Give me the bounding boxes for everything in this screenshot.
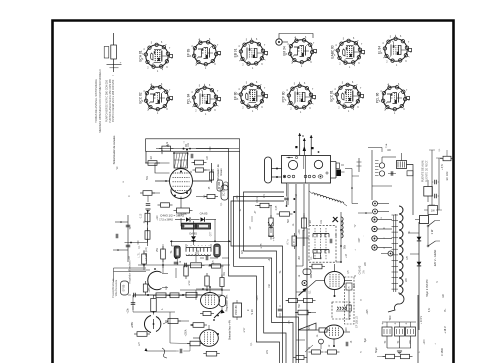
svg-text:2M2: 2M2 — [311, 273, 313, 278]
long vertical from tuner — [306, 228, 308, 363]
svg-text:EB 91: EB 91 — [234, 48, 238, 57]
power terminals — [372, 217, 377, 222]
lower-left bottom boxes — [190, 341, 200, 346]
wire y241 — [170, 240, 231, 242]
top-cap terminal — [276, 39, 282, 45]
svg-text:+150A: +150A — [185, 329, 188, 336]
svg-text:+225: +225 — [367, 309, 369, 315]
horizontal osc block — [162, 146, 171, 151]
between tubes parts — [203, 311, 211, 315]
svg-text:50µF 2 PM 470: 50µF 2 PM 470 — [426, 279, 429, 297]
tube socket EABC 80 — [331, 37, 365, 69]
svg-text:5µF: 5µF — [364, 337, 367, 342]
bottom mid boxes — [289, 298, 298, 302]
right pot dark — [214, 244, 220, 257]
left feed column — [127, 215, 129, 262]
svg-text:17,5 a 3MA5: 17,5 a 3MA5 — [159, 219, 173, 222]
coil column right — [340, 212, 342, 262]
svg-text:+ 18 V: + 18 V — [444, 326, 447, 334]
svg-text:+: + — [382, 322, 384, 326]
mid right boxes — [312, 264, 322, 269]
osc wires — [167, 144, 169, 147]
osc transformer hatched — [174, 153, 188, 168]
svg-text:MEDIDAS OBTENIDAS CON VOLTIMET: MEDIDAS OBTENIDAS CON VOLTIMETRO MODELO — [98, 69, 102, 132]
AT label boxes — [217, 180, 223, 191]
B+ rail — [417, 295, 419, 363]
svg-text:1M: 1M — [151, 156, 153, 159]
long wire y265 — [138, 264, 230, 266]
svg-text:L.T.L: L.T.L — [138, 252, 141, 258]
IF coils right — [379, 163, 384, 168]
svg-text:EABC 80: EABC 80 — [331, 45, 335, 58]
video preamp leads — [114, 267, 147, 269]
svg-text:EF 89: EF 89 — [187, 49, 191, 58]
antenna input — [265, 157, 272, 183]
svg-text:1 W: 1 W — [430, 229, 434, 234]
svg-text:M: M — [302, 135, 304, 138]
small box right — [407, 171, 413, 176]
tube socket EF 80 — [234, 81, 268, 113]
label box PCF — [233, 303, 242, 317]
small meter circle — [302, 280, 307, 285]
svg-text:Sintonizador de canales: Sintonizador de canales — [112, 135, 116, 164]
mid cluster resistors — [142, 254, 147, 264]
long top box — [146, 139, 240, 152]
svg-text:3 A: 3 A — [363, 270, 366, 274]
svg-text:0,15: 0,15 — [141, 213, 143, 218]
svg-text:+10v: +10v — [127, 308, 130, 314]
mid wires — [143, 250, 145, 254]
svg-text:220 V~ GRAD: 220 V~ GRAD — [433, 250, 437, 267]
right wires — [401, 153, 403, 161]
svg-text:a V9: a V9 — [189, 280, 191, 285]
svg-text:CA 3: CA 3 — [255, 197, 259, 203]
svg-text:+190: +190 — [157, 215, 159, 221]
EC92 label box — [221, 185, 228, 200]
EF80 label box — [121, 281, 129, 295]
fuse box — [420, 216, 429, 224]
VHF tuner box — [282, 156, 331, 184]
V-shape mark — [268, 222, 273, 226]
left feed 2M2 box — [151, 299, 157, 312]
dashed IF can — [309, 226, 336, 263]
svg-text:EF 183 1/2: EF 183 1/2 — [356, 315, 359, 327]
bottom right extra boxes — [386, 354, 395, 358]
osc left cap chain — [143, 191, 152, 196]
deflection yoke arcs — [144, 316, 151, 333]
width regulator arc tube — [148, 271, 162, 289]
svg-text:EF 80: EF 80 — [123, 284, 126, 291]
svg-text:PCF 80: PCF 80 — [282, 91, 286, 102]
osc bottom boxes — [161, 203, 170, 207]
svg-text:+: + — [405, 322, 407, 326]
V box 301 — [302, 218, 307, 228]
svg-text:OA 85: OA 85 — [189, 231, 197, 235]
shielded ribbon coil — [312, 193, 344, 204]
winding hook — [388, 294, 404, 312]
svg-text:50µF: 50µF — [375, 347, 378, 353]
tube EL84 bottom — [325, 325, 344, 339]
tube socket PCL 86 — [376, 83, 410, 115]
lower left band wires — [133, 294, 210, 296]
svg-text:+140: +140 — [237, 195, 239, 201]
svg-text:+: + — [394, 322, 396, 326]
tube socket PCF 80 — [282, 82, 316, 114]
mid right wires — [296, 237, 309, 239]
svg-text:1 B 1: 1 B 1 — [294, 239, 296, 245]
tuner inner pins — [283, 175, 286, 178]
border frame — [53, 21, 454, 363]
tuner top leads — [299, 133, 301, 155]
tuner bottom leads — [287, 184, 289, 205]
dashed out-transformer — [332, 302, 350, 319]
terminal circles — [373, 201, 378, 206]
svg-text:OA 85: OA 85 — [200, 212, 208, 216]
svg-text:+200: +200 — [346, 327, 348, 333]
speaker dashed box — [345, 277, 355, 324]
rectifier diodes — [418, 222, 420, 330]
filter caps — [382, 327, 392, 336]
mains switch — [427, 225, 429, 227]
svg-text:+130: +130 — [299, 229, 301, 235]
connector to IF wires — [345, 169, 358, 204]
lower tube lower-left — [200, 330, 219, 347]
bold X mark — [333, 217, 339, 222]
svg-text:1M: 1M — [310, 220, 312, 223]
tube EM84 mid — [325, 272, 345, 290]
svg-text:K: K — [348, 286, 350, 290]
svg-text:Preamplificador de: Preamplificador de — [112, 278, 115, 298]
svg-text:Sintonia fina + 4%: Sintonia fina + 4% — [229, 319, 232, 340]
box 1W right — [428, 206, 438, 215]
svg-text:lineas: lineas — [219, 168, 223, 176]
svg-text:C 1500: C 1500 — [441, 347, 444, 356]
svg-text:a T 263 (1/2): a T 263 (1/2) — [145, 247, 148, 261]
voltmeter probe symbol — [113, 33, 115, 45]
svg-text:Videofrecuencia: Videofrecuencia — [115, 279, 118, 296]
svg-text:CH1 A3: CH1 A3 — [359, 265, 362, 274]
upper tube lower-left — [201, 293, 220, 309]
mid cluster resistors extra — [205, 276, 209, 286]
tube socket ECH 81 — [139, 41, 173, 73]
svg-text:+245v: +245v — [132, 321, 134, 328]
bus wire staircase — [240, 151, 293, 363]
svg-text:FUENTE DE ALIM.: FUENTE DE ALIM. — [421, 160, 425, 182]
tube socket EB 91 — [234, 38, 268, 70]
svg-text:AT1: AT1 — [263, 193, 266, 198]
svg-text:7,5A: 7,5A — [385, 143, 388, 148]
svg-text:1W: 1W — [431, 209, 435, 213]
svg-text:V 13: V 13 — [251, 309, 254, 315]
svg-text:PUENTE DE RECT.: PUENTE DE RECT. — [425, 160, 428, 183]
svg-text:EM 34: EM 34 — [283, 46, 287, 55]
svg-text:+255: +255 — [257, 295, 259, 301]
dark boxes — [182, 223, 196, 229]
svg-text:TRC: TRC — [388, 315, 392, 320]
svg-text:TOMAS DE ANTENA. SINTONIZADA: TOMAS DE ANTENA. SINTONIZADA — [94, 79, 98, 123]
bottom mid small parts — [319, 339, 324, 344]
svg-text:OA 85: OA 85 — [179, 212, 187, 216]
svg-text:a T: a T — [138, 342, 141, 346]
svg-text:ECH 81: ECH 81 — [139, 50, 143, 61]
svg-text:A 7 u: A 7 u — [287, 239, 290, 245]
wire to V13 — [196, 288, 222, 290]
pot 50k right — [219, 296, 226, 307]
transformer winding — [399, 206, 403, 294]
yoke boxes — [168, 319, 178, 324]
svg-text:+ 4,5v: + 4,5v — [442, 163, 444, 170]
caps near osc — [190, 154, 192, 159]
svg-text:PUNTO CREMA VER E 268 CON 250: PUNTO CREMA VER E 268 CON 250 — [112, 79, 115, 122]
svg-text:GR: GR — [443, 294, 445, 298]
svg-text:TV: TV — [355, 224, 357, 227]
bus area components — [260, 203, 269, 207]
top right box — [443, 156, 451, 161]
svg-text:+255: +255 — [149, 287, 151, 293]
diode vert — [191, 236, 196, 240]
tube V1 line osc — [170, 169, 193, 194]
svg-text:+270: +270 — [424, 339, 426, 345]
svg-text:EM: EM — [354, 284, 356, 288]
svg-text:OTT: OTT — [211, 231, 213, 236]
svg-text:EL 84: EL 84 — [378, 46, 382, 54]
svg-text:Regulador vert.: Regulador vert. — [226, 294, 229, 311]
svg-text:PCL 84: PCL 84 — [187, 94, 191, 105]
svg-text:Regulador de anchura: Regulador de anchura — [129, 260, 132, 283]
left vert wire — [171, 241, 173, 246]
svg-text:ECC 82: ECC 82 — [139, 92, 143, 103]
tube socket PCL 84 — [187, 84, 221, 116]
svg-text:+ 215 V: + 215 V — [420, 315, 423, 324]
svg-text:0,25: 0,25 — [276, 205, 278, 210]
tube socket EM 34 — [283, 36, 317, 68]
rect box EZ — [424, 187, 433, 197]
triangle flyback — [298, 323, 316, 330]
5th terminal — [388, 251, 393, 256]
tube socket EF 89 — [187, 38, 221, 70]
VDR arrow — [299, 289, 307, 296]
svg-text:a V5: a V5 — [261, 243, 263, 248]
svg-text:2M2: 2M2 — [162, 149, 164, 154]
tube socket ECC 81 — [330, 81, 364, 113]
osc boxes — [148, 161, 157, 166]
socket lead stub — [358, 158, 360, 172]
svg-text:CRT: CRT — [359, 237, 361, 242]
svg-text:ECC 81: ECC 81 — [330, 90, 334, 101]
svg-text:PCF 80: PCF 80 — [234, 305, 238, 315]
column x147 boxes — [147, 210, 149, 246]
top bus wire — [145, 151, 147, 163]
tuner connector — [331, 161, 337, 163]
svg-text:a V7: a V7 — [244, 327, 246, 332]
tube socket EL 84 — [378, 35, 412, 67]
svg-text:AT 263: AT 263 — [218, 181, 221, 189]
svg-text:EF 80: EF 80 — [234, 92, 238, 101]
tube socket ECC 82 — [139, 83, 173, 115]
IF transformer box — [397, 161, 407, 169]
svg-text:+: + — [120, 61, 122, 65]
svg-text:PCL 86: PCL 86 — [376, 93, 380, 104]
svg-text:EF 183: EF 183 — [445, 171, 449, 180]
svg-text:2M: 2M — [299, 256, 301, 259]
misc mid wires — [181, 218, 185, 226]
mains wires — [408, 232, 419, 234]
tuner small boxes below — [284, 197, 289, 199]
